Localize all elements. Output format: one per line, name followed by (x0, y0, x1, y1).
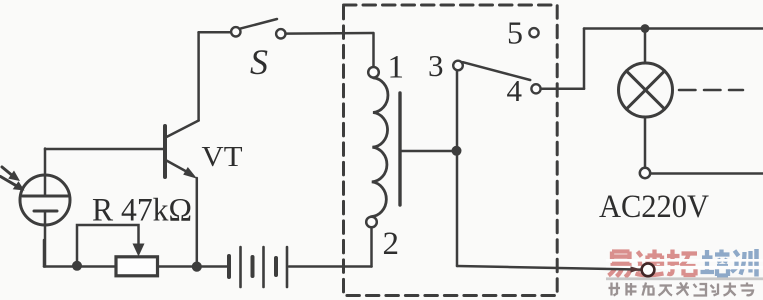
svg-text:1: 1 (388, 50, 405, 86)
wire from terminal 4 (541, 88, 584, 91)
svg-text:2: 2 (383, 226, 400, 262)
transistor VT emitter with arrow (166, 160, 191, 174)
light arrow 1 (2, 167, 11, 175)
wire photocell corner (43, 240, 46, 267)
photocell PH circle (20, 175, 70, 225)
wire top rail to switch (199, 31, 232, 34)
svg-text:4: 4 (507, 73, 523, 108)
relay contact pole line (456, 71, 459, 266)
transistor VT base bar (163, 126, 167, 177)
svg-text:5: 5 (507, 15, 523, 51)
dashed stub right of lamp (679, 89, 743, 92)
battery bar short 1 (227, 256, 231, 277)
svg-text:S: S (250, 42, 268, 82)
photocell anode plate (long chord) (23, 195, 69, 198)
relay contact blade 3-4 (463, 62, 530, 80)
relay dashed enclosure (344, 5, 558, 296)
junction lamp top (641, 24, 650, 33)
svg-text:AC220V: AC220V (599, 189, 709, 225)
wire lamp feed (644, 29, 647, 64)
relay terminal 5 (529, 28, 538, 37)
易 (609, 252, 632, 278)
wire down to terminal 1 (372, 33, 375, 67)
wire AC top lead (650, 172, 763, 175)
battery bar long 3 (286, 247, 289, 287)
wire lamp bottom (644, 117, 647, 168)
wire base (photocell to transistor base) (45, 148, 164, 151)
rheostat wiper loop (77, 225, 139, 266)
photocell cathode lead (bottom wire) (44, 211, 47, 267)
arrow blob on rail (631, 266, 641, 272)
photocell cathode plate (short line) (34, 210, 57, 213)
svg-text:3: 3 (428, 48, 444, 83)
relay terminal 1 (368, 67, 379, 78)
relay core bar (398, 93, 401, 205)
watermark underline (606, 277, 763, 280)
battery bar long 2 (262, 247, 265, 287)
terminal AC bottom (642, 263, 655, 276)
battery bar short 3 (274, 258, 278, 275)
battery wire right to relay coil (289, 265, 372, 268)
培 (701, 250, 730, 277)
wire resistor to junction (158, 265, 197, 268)
wire terminal 2 down (370, 227, 373, 266)
relay terminal 4 (531, 84, 540, 93)
训 (732, 249, 757, 277)
transistor VT collector (166, 121, 199, 138)
lamp X (626, 71, 664, 109)
watermark white stripes (606, 260, 763, 267)
bottom rail left (44, 265, 116, 268)
relay armature link (402, 150, 457, 153)
battery bar long 1 (239, 247, 242, 287)
light arrow 2 (1, 177, 16, 186)
watermark tagline 射频和天线设计专家 (609, 283, 754, 296)
rheostat wiper arrowhead (133, 244, 145, 257)
battery GB: wire left (197, 265, 227, 268)
bottom rail to AC terminal (457, 266, 641, 270)
junction armature/contact (452, 146, 462, 156)
battery bar short 2 (251, 257, 255, 276)
terminal lamp bottom (640, 168, 650, 178)
junction dot emitter (192, 262, 202, 272)
photocell anode lead (top wire into circle) (44, 149, 47, 197)
switch S left terminal (231, 27, 240, 36)
relay terminal 2 (366, 217, 377, 228)
junction dot left (72, 261, 82, 271)
wire lamp top rail (584, 27, 763, 30)
relay terminal 3 (453, 61, 463, 71)
迪 (636, 250, 664, 276)
wire emitter down (196, 178, 199, 267)
wire switch to relay terminal 1 (285, 32, 373, 35)
watermark logo 易迪拓培训 (609, 249, 757, 277)
svg-text:R 47kΩ: R 47kΩ (92, 193, 192, 229)
relay coil K (371, 78, 388, 217)
switch S right terminal (276, 29, 285, 38)
wire riser to lamp rail (583, 29, 586, 89)
switch S blade (240, 19, 277, 29)
lamp HL circle (619, 63, 673, 117)
wire collector riser (197, 32, 200, 120)
resistor R body (116, 257, 158, 276)
svg-text:VT: VT (202, 141, 243, 173)
拓 (667, 250, 697, 276)
